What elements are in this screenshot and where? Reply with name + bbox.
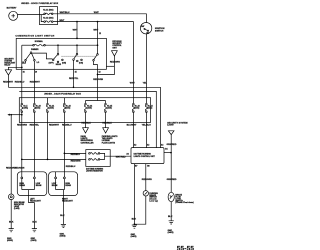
svg-text:RED/YEL: RED/YEL xyxy=(69,78,79,80)
svg-text:BLK: BLK xyxy=(60,215,65,217)
svg-text:IG1: IG1 xyxy=(146,32,149,34)
svg-text:Lever up): Lever up) xyxy=(149,200,158,203)
dash lights text xyxy=(81,135,94,144)
svg-text:RED/GRN: RED/GRN xyxy=(14,167,24,169)
svg-text:WHT: WHT xyxy=(59,20,65,22)
svg-text:(G303): (G303) xyxy=(7,240,13,242)
node bus x77 xyxy=(76,44,78,46)
fuse No.41 (80A) xyxy=(43,9,54,15)
node row2/x97.5 xyxy=(97,21,99,23)
svg-text:RED/BLK: RED/BLK xyxy=(102,123,112,125)
svg-text:A6: A6 xyxy=(126,153,128,156)
svg-text:(G402): (G402) xyxy=(131,235,137,238)
wire keyless link from box edge xyxy=(106,65,114,67)
wire x97.5 down to under-dash xyxy=(97,75,99,101)
switch lighting (right) xyxy=(73,53,84,64)
svg-text:PLATE LIGHTS: PLATE LIGHTS xyxy=(102,141,116,144)
svg-text:RED/BLU: RED/BLU xyxy=(66,166,76,168)
svg-text:YEL/BLU: YEL/BLU xyxy=(142,125,152,127)
svg-text:YEL: YEL xyxy=(143,82,148,84)
wire fuse23 out RED/YEL to left low beam xyxy=(33,113,35,173)
svg-text:No.42 (40A): No.42 (40A) xyxy=(43,17,54,20)
parking lights text xyxy=(102,135,118,144)
svg-text:15: 15 xyxy=(75,71,77,73)
switch passing xyxy=(93,54,99,61)
svg-text:UNDER - HOOD FUSE/RELAY BOX: UNDER - HOOD FUSE/RELAY BOX xyxy=(21,2,59,5)
svg-text:(10A): (10A) xyxy=(49,106,54,109)
wire left column down xyxy=(21,45,23,97)
wire normal output bus xyxy=(45,44,97,46)
svg-text:WHT: WHT xyxy=(93,29,99,31)
svg-text:(10A): (10A) xyxy=(135,106,140,109)
svg-text:UNDER - DASH FUSE/RELAY BOX: UNDER - DASH FUSE/RELAY BOX xyxy=(44,92,81,95)
bus wire 2 xyxy=(19,91,156,148)
wire high beam indicator feed xyxy=(10,115,12,194)
svg-text:12: 12 xyxy=(99,33,101,35)
wire fuse25 out to parking lights triangle xyxy=(105,113,107,128)
svg-text:BLK: BLK xyxy=(168,216,173,218)
svg-text:COMBINATION LIGHT SWITCH: COMBINATION LIGHT SWITCH xyxy=(15,35,54,38)
svg-text:B7: B7 xyxy=(135,166,137,168)
brake fluid level switch xyxy=(168,192,194,204)
fuse No.32 xyxy=(132,103,139,112)
svg-text:RED/BLK: RED/BLK xyxy=(81,123,91,125)
svg-text:RED/BLU: RED/BLU xyxy=(62,125,72,127)
switch NORMAL element xyxy=(33,40,46,46)
wire left headlight to ground xyxy=(29,196,35,229)
svg-text:BLU/WHT: BLU/WHT xyxy=(127,125,138,127)
wire security light down xyxy=(170,135,172,193)
ground G401 mid xyxy=(131,225,137,238)
wire fuse24 out to dash lights triangle xyxy=(85,113,87,128)
svg-text:HEADLIGHT: HEADLIGHT xyxy=(30,199,42,202)
svg-text:RED/WHT: RED/WHT xyxy=(49,125,60,127)
svg-text:12: 12 xyxy=(99,71,101,73)
wire right headlight to ground xyxy=(62,196,64,225)
wire dimmer pivot to lighting switch contact xyxy=(32,53,53,59)
ignition switch xyxy=(140,23,164,35)
arrow wire into fuse output xyxy=(9,114,21,116)
svg-text:(G303): (G303) xyxy=(31,240,37,242)
ground right headlight xyxy=(60,224,66,237)
svg-text:BEAM: BEAM xyxy=(65,184,71,187)
svg-text:GRN/RED: GRN/RED xyxy=(167,144,177,146)
svg-text:BLK: BLK xyxy=(9,221,14,223)
wire fuse42 out WHT row2 xyxy=(53,22,133,98)
wire bus to passing feed xyxy=(76,45,78,53)
stubs from box top to fuses xyxy=(22,98,147,104)
bus wire 1 xyxy=(8,87,160,148)
wire passing contact jog down xyxy=(94,61,98,74)
daytime running lights resistor xyxy=(86,150,110,173)
svg-text:RED/BLU: RED/BLU xyxy=(71,154,81,156)
svg-text:(Closed: Float down): (Closed: Float down) xyxy=(175,201,194,204)
svg-text:BEAM: BEAM xyxy=(52,184,58,187)
svg-text:WHT/BLU: WHT/BLU xyxy=(60,12,70,14)
wire drop x77 WHT xyxy=(76,22,78,39)
connector triangle dash lights xyxy=(83,128,89,133)
connector triangle parking lights xyxy=(103,128,109,133)
svg-text:HEAD: HEAD xyxy=(56,63,62,66)
svg-text:WHT/RED: WHT/RED xyxy=(116,156,126,158)
svg-text:RELAY: RELAY xyxy=(4,64,11,67)
fuse No.22 xyxy=(63,103,70,112)
svg-text:BLK: BLK xyxy=(132,219,137,221)
svg-text:LIGHTS CONTROL UNIT: LIGHTS CONTROL UNIT xyxy=(134,156,156,158)
battery B1 xyxy=(7,7,18,21)
svg-text:BEAM: BEAM xyxy=(36,184,42,187)
wire indicator to ground xyxy=(10,200,12,229)
svg-text:BATTERY: BATTERY xyxy=(7,7,17,10)
keyless/security control unit xyxy=(112,41,123,56)
wire brake fluid to ground xyxy=(170,202,172,221)
ground G402 right xyxy=(168,221,174,234)
switch DIMMER xyxy=(22,49,39,64)
node bus x97.5 xyxy=(97,44,99,46)
svg-text:A3: A3 xyxy=(147,144,149,147)
svg-text:WHT: WHT xyxy=(94,12,100,14)
svg-text:GRN/RED: GRN/RED xyxy=(167,179,177,181)
arrowhead xyxy=(7,114,9,116)
under-hood fuse/relay box xyxy=(21,2,59,25)
ground left headlight xyxy=(31,229,37,242)
wire inside box linking fuse feeds xyxy=(40,14,44,22)
svg-text:RED/WHT: RED/WHT xyxy=(30,81,41,83)
svg-text:NORMAL: NORMAL xyxy=(35,40,44,43)
wire fuse14 out YEL/BLU to DRL unit xyxy=(145,113,147,149)
wire drop x97.5 WHT to passing switch xyxy=(97,22,99,54)
svg-text:CONTROLLER: CONTROLLER xyxy=(81,142,94,144)
svg-text:(10A): (10A) xyxy=(66,106,71,109)
svg-text:(ON): (ON) xyxy=(79,62,83,64)
svg-text:LIGHTS RESISTOR: LIGHTS RESISTOR xyxy=(86,171,103,173)
wire keyless drop xyxy=(98,56,115,75)
wire fuse No.5 out RED/GRN down to headlights xyxy=(21,113,23,173)
parking brake switch xyxy=(143,191,158,203)
wire resistor out WHT/RED xyxy=(110,155,131,157)
fuse No.24 xyxy=(84,103,93,112)
node bus x58 xyxy=(57,44,59,46)
svg-text:(OFF): (OFF) xyxy=(49,62,54,64)
fuse No.5 xyxy=(21,103,29,112)
wire security relay to junction xyxy=(8,67,21,87)
svg-text:WHT: WHT xyxy=(130,82,136,84)
fuse No.25 xyxy=(104,103,112,112)
svg-text:SWITCH: SWITCH xyxy=(155,31,164,33)
wire RED/BLU row to resistor xyxy=(64,152,85,154)
svg-text:BEAM: BEAM xyxy=(19,184,25,187)
svg-text:DIMMER: DIMMER xyxy=(31,49,39,51)
right headlight xyxy=(49,172,78,196)
wire HI contact jog to left column xyxy=(22,61,26,63)
svg-text:BLK: BLK xyxy=(32,221,37,223)
wire normal feed from left column xyxy=(22,44,33,46)
svg-text:RED/GRN: RED/GRN xyxy=(71,161,81,163)
ground indicator xyxy=(7,229,14,242)
svg-text:RED/WHT: RED/WHT xyxy=(3,81,14,83)
wire LO contact down xyxy=(33,61,35,98)
svg-text:(ON): (ON) xyxy=(62,62,66,64)
wire ignition IG1 down YEL xyxy=(145,34,147,98)
svg-text:16: 16 xyxy=(23,71,25,73)
svg-text:(G303): (G303) xyxy=(60,236,66,238)
wire bus to lighting switch xyxy=(57,45,59,53)
svg-text:(1.4W): (1.4W) xyxy=(14,207,20,210)
svg-text:B8: B8 xyxy=(147,166,149,168)
wire parking brake to ground join xyxy=(134,196,145,224)
svg-text:(10A): (10A) xyxy=(87,106,92,109)
wire DRL unit right pin to security light wire xyxy=(164,152,171,154)
svg-text:No.41 (80A): No.41 (80A) xyxy=(43,9,54,12)
svg-text:RED/GRN: RED/GRN xyxy=(93,79,103,81)
svg-text:WHT: WHT xyxy=(73,29,79,31)
node security join xyxy=(21,66,23,68)
wire x77 to bus1 xyxy=(73,60,75,87)
daytime running lights control unit xyxy=(131,148,164,164)
left headlight xyxy=(17,172,47,196)
fuse No.23 xyxy=(33,103,40,112)
wire B8 to parking brake switch RED/GRN xyxy=(145,164,147,191)
svg-text:RED/BLU: RED/BLU xyxy=(15,81,25,83)
svg-text:(10A): (10A) xyxy=(36,106,41,109)
fuse No.21 xyxy=(46,103,54,112)
wire battery to under-hood box xyxy=(18,14,40,16)
svg-text:(10A): (10A) xyxy=(23,106,28,109)
wire fuse32 out BLU/WHT to DRL unit xyxy=(132,113,134,149)
under-dash fuse/relay box xyxy=(19,98,150,123)
high beam indicator light xyxy=(8,194,25,210)
dashed mechanical link xyxy=(62,55,95,57)
node fuse5 out xyxy=(21,114,23,116)
combination light switch box xyxy=(16,38,106,69)
wire RED/GRN long run to resistor xyxy=(22,158,86,160)
wire fuse21 out RED/WHT xyxy=(47,113,49,160)
svg-text:10: 10 xyxy=(35,71,37,73)
node keyless/passing join xyxy=(97,74,99,76)
wire fuse41 out WHT/BLU to ignition switch xyxy=(53,14,146,23)
fuse No.42 (40A) xyxy=(43,17,54,23)
svg-text:LIGHT: LIGHT xyxy=(167,125,174,127)
svg-text:RED/YEL: RED/YEL xyxy=(30,125,40,127)
svg-text:(G402): (G402) xyxy=(168,231,174,234)
fuse No.14 xyxy=(145,103,153,112)
security system headlight relay xyxy=(4,58,16,75)
security system light xyxy=(167,123,187,135)
svg-text:55-55: 55-55 xyxy=(177,246,195,250)
svg-text:RED/GRN: RED/GRN xyxy=(17,125,27,127)
svg-text:(15A): (15A) xyxy=(148,106,153,109)
svg-text:B1: B1 xyxy=(165,149,167,151)
wire x97.5 split to fuse pair xyxy=(86,101,106,104)
svg-text:RED/GRN: RED/GRN xyxy=(110,61,120,63)
node row2/x77 xyxy=(76,21,78,23)
wire fuse22 out RED/BLU to right high beam xyxy=(63,113,65,173)
node arrow branch xyxy=(10,114,12,116)
svg-text:(10A): (10A) xyxy=(107,106,112,109)
svg-text:RED/GRN: RED/GRN xyxy=(142,179,152,181)
wire B7 to ground xyxy=(133,164,135,225)
svg-text:A2: A2 xyxy=(134,144,136,147)
switch lighting (left) xyxy=(49,53,67,66)
